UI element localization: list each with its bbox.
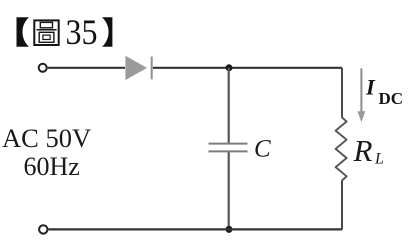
wire capacitor upper: [228, 68, 230, 143]
diode D1 triangle: [125, 56, 147, 80]
svg-text:DC: DC: [379, 89, 404, 108]
svg-text:AC 50V: AC 50V: [2, 123, 91, 153]
capacitor C plates: [209, 144, 248, 152]
svg-text:I: I: [365, 75, 376, 100]
wire right lower: [341, 181, 343, 229]
diode D1 cathode bar: [151, 57, 153, 80]
title bracket left 【: [17, 17, 30, 47]
wire bottom: [49, 228, 343, 230]
title bracket right 】: [102, 17, 112, 47]
svg-text:60Hz: 60Hz: [24, 152, 80, 181]
node junction top: [226, 64, 233, 71]
wire right upper: [341, 68, 343, 117]
title glyph 圖: [34, 20, 58, 45]
svg-text:C: C: [254, 136, 271, 163]
wire capacitor lower: [228, 152, 230, 229]
svg-text:R: R: [353, 133, 373, 168]
resistor RL zigzag: [336, 117, 347, 181]
wire top left: [48, 67, 125, 69]
terminal top: [39, 64, 47, 72]
wire top right: [153, 67, 342, 69]
arrow IDC: [360, 68, 362, 112]
svg-text:L: L: [374, 151, 384, 168]
terminal bottom: [39, 225, 47, 233]
node junction bottom: [226, 226, 233, 233]
svg-text:35: 35: [66, 12, 98, 52]
